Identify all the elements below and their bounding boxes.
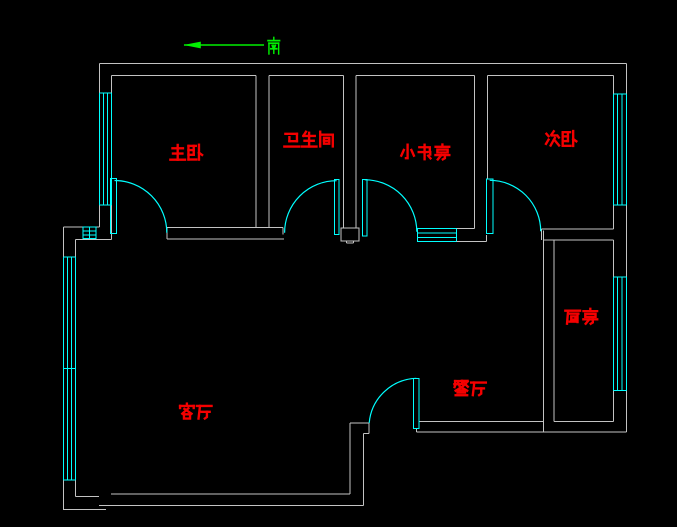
compass label south (nan) [268,38,280,54]
corridor wall segment C [542,229,614,240]
west wall upper inner line [111,76,113,240]
threshold element hallway [418,229,457,242]
door arc dining south [369,378,416,423]
room label second bedroom (ci-wo) [546,131,576,146]
east wall outer line [626,64,628,433]
door arc master bedroom [115,181,167,233]
window master bedroom west [100,93,112,205]
door leaf dining south [414,379,420,429]
south wall outer corner line [64,509,107,511]
wall post at dining door [350,423,369,506]
kitchen west wall inner line [553,240,555,422]
window kitchen east [614,277,627,391]
north exterior wall outer line [100,63,627,65]
west wall lower inner line [75,240,77,497]
room label bathroom (wei-sheng-jian) [284,132,332,147]
room label dining (can-ting) [454,381,485,395]
door leaf bathroom [334,179,339,234]
south arrow head [184,42,201,49]
door arc study [365,180,417,232]
north exterior wall inner line [112,75,614,77]
window living room west [64,257,76,480]
small window on step wall [83,227,96,238]
west wall lower outer line [63,227,65,510]
divider bathroom / study [344,76,357,229]
south arrow line [184,44,264,46]
west wall upper outer line [99,64,101,228]
divider study / second bedroom [475,76,488,229]
corridor wall segment A [167,228,284,240]
corridor wall junction box [341,228,359,243]
kitchen south wall inner line [554,421,614,423]
window second bedroom east [614,94,627,205]
corridor wall segment B [457,229,487,242]
dining south wall inner line [419,421,544,423]
door leaf study [363,179,368,235]
west wall step bottom line [76,239,112,241]
room label living room (ke-ting) [180,404,211,419]
east wall inner line [613,76,615,422]
south wall outer line [99,505,364,507]
dining-kitchen south wall outer line [417,428,627,432]
west wall step top line [64,226,100,228]
south wall inner line [76,494,351,496]
kitchen west wall outer line [543,231,545,433]
door arc bathroom [285,181,337,233]
door leaf second bedroom [487,179,493,233]
door arc second bedroom [490,180,541,231]
room label master bedroom (zhu-wo) [170,145,202,160]
divider master bedroom / bathroom [256,76,269,228]
room label study (xiao-shu-fang) [401,145,449,160]
door leaf master bedroom [111,179,117,234]
room label kitchen (chu-fang) [565,309,597,324]
